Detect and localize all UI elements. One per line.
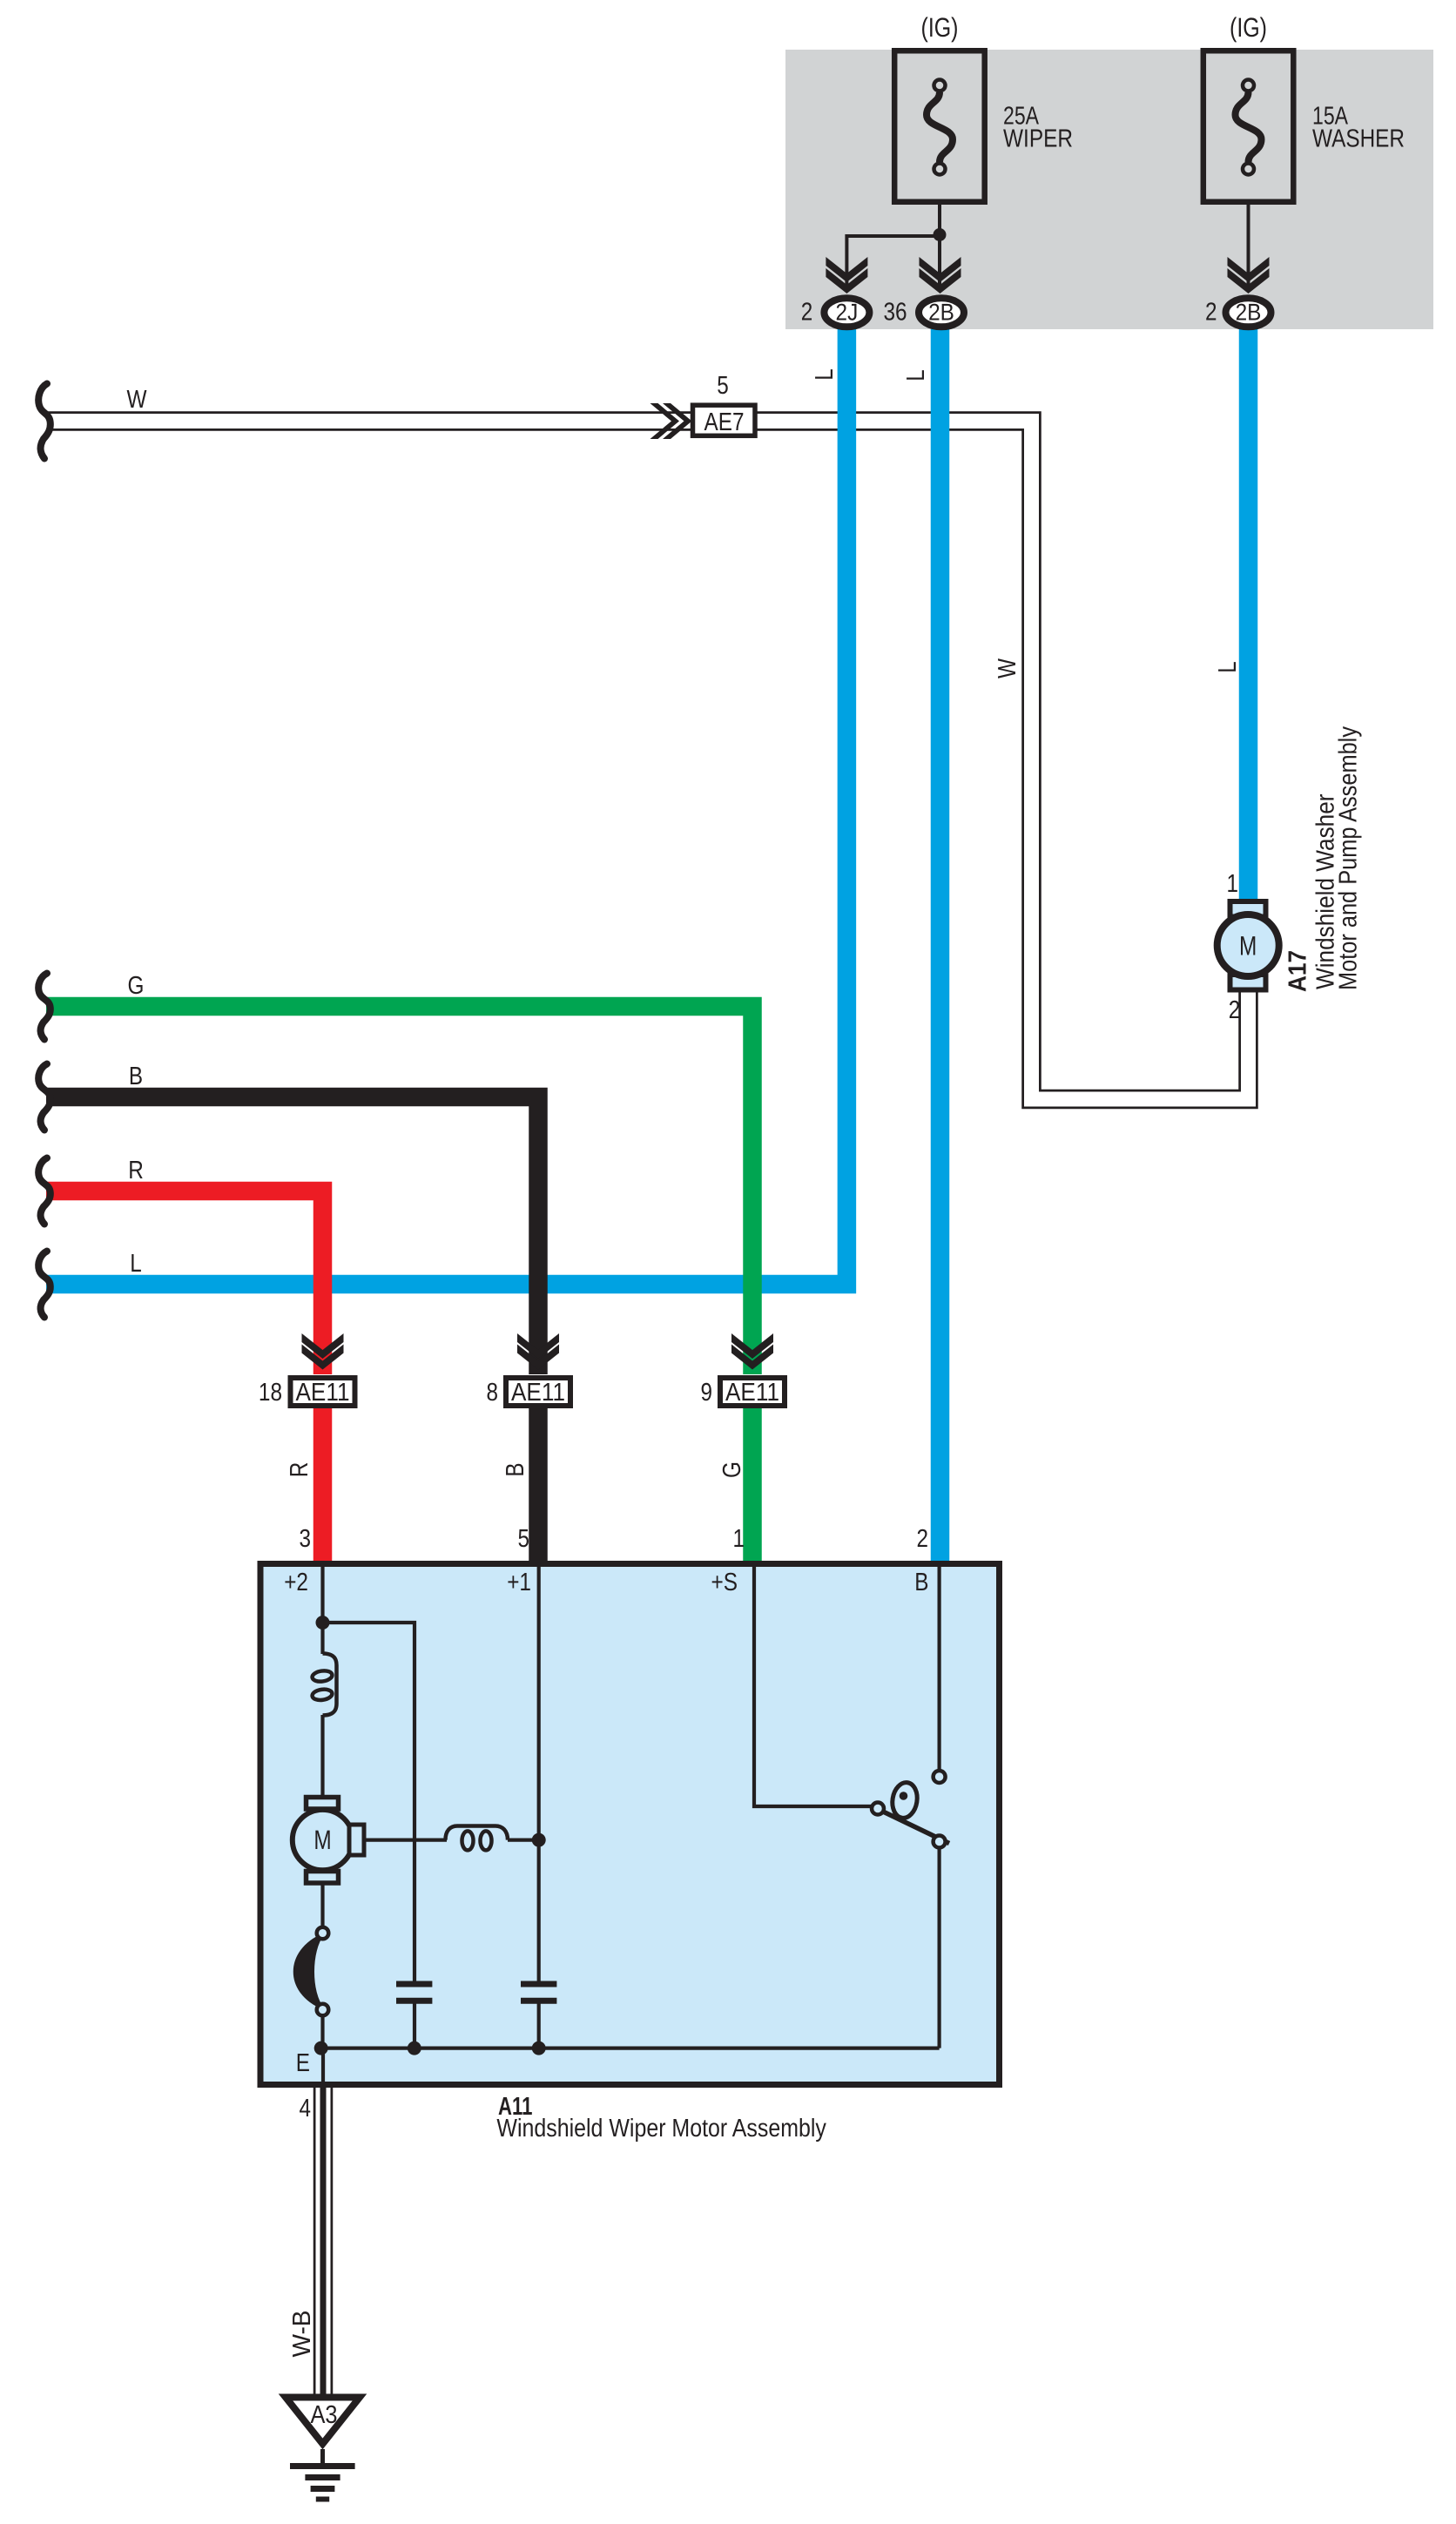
svg-text:2: 2 [1205, 299, 1217, 327]
svg-text:2: 2 [1229, 996, 1241, 1024]
svg-text:AE7: AE7 [704, 408, 745, 436]
svg-text:W-B: W-B [288, 2311, 316, 2358]
wire E to pin 4 [321, 2048, 325, 2085]
wire lower contact to rail [937, 1848, 940, 2048]
ground A3 [286, 2398, 360, 2445]
wire continuation mark [38, 974, 51, 1040]
wire continuation mark [38, 1158, 51, 1225]
svg-text:L: L [902, 369, 930, 381]
switch pivot [872, 1803, 884, 1815]
wire B pin to upper contact [937, 1563, 940, 1771]
arrow into connector [826, 257, 867, 282]
svg-text:E: E [296, 2049, 310, 2077]
wire coil to motor [320, 1715, 324, 1799]
connector AE11 pin 18 [302, 1333, 344, 1359]
svg-text:G: G [128, 972, 145, 1000]
svg-text:8: 8 [487, 1379, 499, 1407]
svg-text:B: B [129, 1063, 143, 1090]
svg-text:R: R [286, 1462, 313, 1478]
wire continuation mark [38, 384, 51, 459]
svg-text:AE11: AE11 [511, 1379, 565, 1407]
connector 2B [919, 298, 964, 327]
junction node [316, 1616, 330, 1630]
fuse 25A WIPER [894, 51, 985, 202]
svg-text:2: 2 [917, 1525, 929, 1553]
wire continuation mark [38, 1252, 51, 1318]
washer motor A17 terminals [1230, 901, 1266, 917]
svg-text:Motor and Pump Assembly: Motor and Pump Assembly [1335, 726, 1363, 990]
wire B below AE11 to A11 pin 5 [529, 1408, 548, 1564]
connector AE7 [650, 403, 680, 439]
connector 2B [1226, 298, 1271, 327]
svg-text:W: W [994, 658, 1021, 678]
brush/commutator crescent [294, 1934, 323, 2008]
wire motor to inductor L2 [364, 1839, 447, 1842]
wire G elbow to AE11 pin 9 [46, 1007, 752, 1375]
wire L from washer 2B to washer motor pin 1 [1239, 329, 1258, 908]
svg-text:(IG): (IG) [1230, 12, 1267, 43]
arrow into connector [1228, 257, 1270, 282]
capacitor C1 [396, 1981, 432, 1987]
connector AE11 pin 8 [517, 1333, 559, 1359]
cam [890, 1781, 920, 1820]
svg-text:+2: +2 [284, 1569, 308, 1596]
fuse 15A WASHER [1203, 51, 1294, 202]
svg-text:M: M [313, 1825, 331, 1855]
component A11 Windshield Wiper Motor Assembly (box) [260, 1564, 1000, 2085]
svg-text:2B: 2B [1236, 300, 1262, 326]
svg-text:2: 2 [801, 299, 813, 327]
wire L from connector 2J down and left (horizontal L run) [46, 329, 846, 1285]
svg-text:3: 3 [300, 1525, 312, 1553]
svg-text:5: 5 [518, 1525, 530, 1553]
svg-text:B: B [502, 1462, 529, 1476]
park switch wire from +S [754, 1563, 873, 1806]
svg-text:M: M [1239, 931, 1257, 962]
motor M (wiper) [293, 1810, 353, 1870]
junction dot [934, 228, 947, 241]
connector 2J [824, 298, 869, 327]
switch lower contact [934, 1836, 946, 1848]
svg-text:18: 18 [259, 1379, 282, 1407]
svg-text:WIPER: WIPER [1003, 125, 1073, 153]
switch blade [881, 1811, 949, 1844]
wire L2 to +1 line [508, 1839, 539, 1842]
svg-text:Windshield Wiper Motor Assembl: Windshield Wiper Motor Assembly [496, 2115, 826, 2143]
wire L from connector 2B to A11 pin B [931, 329, 950, 1564]
wire from WIPER fuse to connectors [938, 205, 941, 287]
motor M (washer) [1217, 914, 1279, 976]
junction node on +1 [532, 1833, 546, 1847]
svg-text:36: 36 [884, 299, 907, 327]
svg-text:2B: 2B [928, 300, 954, 326]
svg-text:(IG): (IG) [921, 12, 959, 43]
internal wire +2 down [320, 1563, 324, 1654]
inductor L2 (horizontal) [446, 1826, 509, 1840]
svg-text:WASHER: WASHER [1312, 125, 1405, 153]
wire W (white) from AE7 to washer motor pin 2 [46, 422, 1249, 1100]
wire from WASHER fuse to connector [1247, 205, 1250, 287]
wire R elbow to AE11 pin 18 [46, 1191, 323, 1375]
svg-text:A3: A3 [311, 2401, 338, 2429]
svg-text:+1: +1 [507, 1569, 531, 1596]
svg-text:5: 5 [717, 372, 729, 400]
wire B elbow to AE11 pin 8 [46, 1097, 538, 1375]
svg-text:+S: +S [711, 1569, 738, 1596]
svg-text:W: W [127, 386, 148, 414]
connector AE11 pin 9 [731, 1333, 773, 1359]
internal wire +1 down [537, 1563, 541, 1983]
switch upper contact [934, 1771, 946, 1783]
svg-text:4: 4 [300, 2095, 312, 2122]
inductor L1 (field coil, vertical) [323, 1654, 337, 1716]
svg-text:R: R [128, 1157, 144, 1184]
arrow into connector [920, 257, 961, 282]
svg-text:AE11: AE11 [296, 1379, 350, 1407]
svg-text:AE11: AE11 [725, 1379, 779, 1407]
svg-text:1: 1 [1227, 870, 1239, 898]
svg-text:A17: A17 [1284, 950, 1312, 992]
wire continuation mark [38, 1064, 51, 1130]
svg-text:1: 1 [733, 1525, 745, 1553]
svg-text:G: G [718, 1461, 746, 1478]
svg-text:B: B [914, 1569, 928, 1596]
ground rail E [321, 2047, 940, 2050]
svg-text:9: 9 [701, 1379, 713, 1407]
wire W-B from A11 pin 4 to ground A3 [313, 2087, 334, 2397]
junction block panel (gray) [785, 50, 1433, 329]
wire G below AE11 to A11 pin 1 [743, 1408, 762, 1564]
svg-text:L: L [1214, 661, 1242, 673]
svg-text:L: L [130, 1250, 142, 1278]
svg-text:L: L [811, 368, 839, 381]
svg-text:2J: 2J [836, 300, 859, 326]
wire branch to capacitor 1 [323, 1623, 415, 1983]
capacitor C2 [521, 1981, 556, 1987]
wire R below AE11 to A11 pin 3 [313, 1408, 333, 1564]
